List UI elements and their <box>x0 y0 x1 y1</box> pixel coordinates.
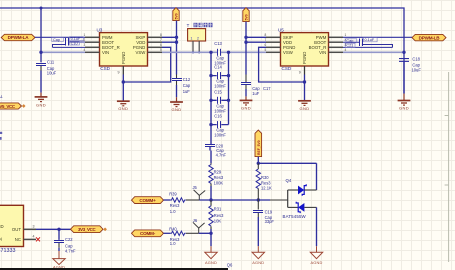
svg-text:GND: GND <box>299 106 309 111</box>
svg-text:4: 4 <box>345 48 347 52</box>
svg-text:BAT5455W: BAT5455W <box>283 214 307 219</box>
svg-text:C12: C12 <box>183 77 191 82</box>
svg-text:C14: C14 <box>214 65 222 70</box>
capacitor C10 assembly (bootstrap) <box>52 37 85 48</box>
wire PWM row U5 to DPWM-LB <box>343 36 412 38</box>
svg-text:100K: 100K <box>214 180 224 185</box>
capacitor C21 assembly (bootstrap) <box>343 38 393 48</box>
svg-text:4: 4 <box>33 234 35 238</box>
U3 pin stubs left <box>85 37 100 52</box>
node Q6 label <box>227 262 233 267</box>
svg-text:NC: NC <box>15 237 21 242</box>
IC U3 power block CSD <box>97 27 148 71</box>
svg-text:100nF: 100nF <box>214 108 226 113</box>
svg-text:J5: J5 <box>193 185 198 190</box>
svg-text:C19: C19 <box>265 209 273 214</box>
svg-text:3V3_VCC: 3V3_VCC <box>78 227 97 232</box>
svg-text:VIN: VIN <box>102 50 109 55</box>
capacitor C19 <box>253 200 274 246</box>
svg-text:5V0: 5V0 <box>245 14 249 20</box>
svg-text:10uF: 10uF <box>47 71 57 76</box>
svg-text:C10: C10 <box>71 42 78 46</box>
svg-text:Q6: Q6 <box>227 262 233 267</box>
ground AGND under C19 <box>252 246 264 265</box>
svg-text:DPWM-LA: DPWM-LA <box>8 35 30 40</box>
capacitor C20 <box>205 143 227 163</box>
node: VIN row to U3 (light wire) <box>39 51 85 54</box>
resistor R39 <box>164 191 200 214</box>
wire: left VIN branch vertical x41 <box>40 7 43 63</box>
capacitor C18 <box>399 57 421 94</box>
port DPWM-LA <box>1 34 35 40</box>
svg-text:10uF: 10uF <box>412 68 422 73</box>
svg-text:0.1uF: 0.1uF <box>365 38 375 42</box>
svg-text:10K: 10K <box>214 219 222 224</box>
svg-text:R29: R29 <box>214 170 222 175</box>
svg-text:COMM+: COMM+ <box>139 198 156 203</box>
svg-text:2: 2 <box>84 38 86 42</box>
svg-text:GND: GND <box>118 106 128 111</box>
wire: bottom toolbar bar <box>0 268 228 270</box>
capacitor C14 <box>211 65 229 89</box>
wire PGND route U5 <box>259 47 307 83</box>
svg-text:J6: J6 <box>193 218 198 223</box>
svg-text:8: 8 <box>160 33 162 37</box>
svg-text:GND: GND <box>36 102 46 107</box>
svg-text:T: T <box>187 23 190 28</box>
svg-text:CSD: CSD <box>282 66 292 71</box>
port COMM+ <box>132 197 164 204</box>
wire PGND route U3 <box>122 47 171 83</box>
node VIN row U5 right (light wire) <box>343 51 406 54</box>
port DPWM-LB <box>412 34 446 40</box>
IC U5 power block CSD <box>278 27 329 71</box>
svg-text:3: 3 <box>84 43 86 47</box>
node left edge text fragments <box>0 132 2 140</box>
svg-text:DPWM-LB: DPWM-LB <box>419 35 441 40</box>
capacitor C13 <box>214 41 226 65</box>
wire: cap ladder right rail <box>227 51 230 125</box>
svg-text:4.7nF: 4.7nF <box>65 248 76 253</box>
wire PWM row U3 <box>35 36 85 38</box>
capacitor C16 <box>211 114 229 138</box>
capacitor C12 <box>172 75 191 98</box>
svg-text:C17: C17 <box>263 86 271 91</box>
no-connect X on NC pin <box>36 237 40 241</box>
svg-text:C15: C15 <box>214 89 222 94</box>
svg-text:GND: GND <box>241 106 251 111</box>
svg-text:Cap: Cap <box>412 62 420 67</box>
svg-text:C13: C13 <box>214 41 222 46</box>
svg-text:VSW: VSW <box>283 50 294 55</box>
svg-text:33pF: 33pF <box>265 219 275 224</box>
port COMM- <box>132 230 164 237</box>
svg-text:U5: U5 <box>278 27 284 32</box>
wire VSW row (light) <box>162 51 266 53</box>
ground GND under C18 <box>398 94 411 106</box>
svg-text:5V5_VCC: 5V5_VCC <box>0 104 16 109</box>
svg-text:TPS71333: TPS71333 <box>0 248 15 254</box>
wire REF node <box>257 157 317 190</box>
svg-text:Res3: Res3 <box>170 203 180 208</box>
svg-text:12.1K: 12.1K <box>261 186 272 191</box>
svg-text:6: 6 <box>265 43 267 47</box>
wire SKIP/VDD tie U3 right <box>162 21 178 75</box>
svg-text:R39: R39 <box>169 191 177 196</box>
svg-text:GND: GND <box>0 224 4 229</box>
svg-text:C11: C11 <box>47 60 55 65</box>
ground GND under U5 <box>298 82 311 105</box>
U5 pin stubs left <box>266 37 281 52</box>
svg-text:7: 7 <box>160 38 162 42</box>
svg-text:6: 6 <box>160 43 162 47</box>
U3 bottom pin 9 <box>118 66 124 82</box>
svg-text:C21: C21 <box>346 44 353 48</box>
resistor R31 <box>209 200 224 233</box>
node A1 partial text <box>0 94 4 99</box>
wire COMM+ ext to diode node <box>270 199 288 201</box>
svg-text:9: 9 <box>118 70 120 74</box>
svg-text:4.7nF: 4.7nF <box>216 153 227 158</box>
svg-text:100nF: 100nF <box>214 133 226 138</box>
svg-text:PGND: PGND <box>121 52 126 64</box>
U3 pin stubs right <box>148 37 163 52</box>
svg-text:1uF: 1uF <box>252 91 260 96</box>
wire: cap ladder left rail <box>209 51 212 144</box>
svg-text:9: 9 <box>299 70 301 74</box>
test point J6 <box>193 218 205 233</box>
svg-text:R30: R30 <box>261 175 269 180</box>
port 3V3_VCC <box>71 226 107 233</box>
port 5V5_VCC (cut at left edge) <box>0 103 26 109</box>
diode Q4 dual schottky BAT5455W <box>283 178 317 219</box>
wire SKIP/VDD tie U5 left <box>244 22 266 75</box>
svg-text:5: 5 <box>265 48 267 52</box>
svg-text:1: 1 <box>191 37 193 41</box>
svg-text:AGND: AGND <box>205 260 217 265</box>
svg-text:4: 4 <box>84 48 86 52</box>
svg-text:0.1uF: 0.1uF <box>71 37 81 41</box>
svg-text:Cap: Cap <box>346 39 353 43</box>
ground GND under U3 <box>117 82 130 106</box>
svg-text:COMM-: COMM- <box>140 231 156 236</box>
ground GND under C17 <box>240 96 253 105</box>
connector T test header <box>187 23 213 54</box>
svg-text:2: 2 <box>197 37 199 41</box>
svg-text:Res3: Res3 <box>214 213 224 218</box>
svg-text:OUT: OUT <box>12 227 21 232</box>
svg-text:C16: C16 <box>214 114 222 119</box>
U5 bottom pin 9 <box>299 66 305 82</box>
svg-text:1: 1 <box>345 33 347 37</box>
svg-text:5: 5 <box>160 48 162 52</box>
svg-text:1uF: 1uF <box>183 89 191 94</box>
svg-text:CSD: CSD <box>100 66 110 71</box>
port 5V0 (right small vertical port) <box>243 8 249 22</box>
svg-text:AGND: AGND <box>252 260 264 265</box>
wire: sheet edge right <box>445 72 449 262</box>
svg-text:C22: C22 <box>65 237 73 242</box>
svg-text:7: 7 <box>265 38 267 42</box>
wire: top VIN rail <box>0 8 404 94</box>
svg-text:Q4: Q4 <box>286 178 292 183</box>
svg-text:U3: U3 <box>97 27 103 32</box>
svg-text:5V0: 5V0 <box>175 13 179 19</box>
svg-text:EN: EN <box>0 236 2 241</box>
svg-text:Res3: Res3 <box>214 175 224 180</box>
resistor R40 <box>164 227 199 247</box>
svg-text:3: 3 <box>33 224 35 228</box>
wire OUT to 3V3_VCC <box>36 228 71 231</box>
svg-text:1.0: 1.0 <box>170 241 176 246</box>
svg-text:Cap: Cap <box>183 83 191 88</box>
svg-text:R31: R31 <box>214 207 222 212</box>
svg-text:100nF: 100nF <box>214 84 226 89</box>
ground GND under C11 <box>35 93 48 102</box>
test point J5 <box>193 185 206 200</box>
svg-text:R40: R40 <box>169 227 177 232</box>
port REF_5V0 (vertical) <box>255 130 262 157</box>
ground AGND under diode <box>310 207 322 265</box>
svg-text:1: 1 <box>84 33 86 37</box>
svg-text:C18: C18 <box>412 57 420 62</box>
U5 pin stubs right <box>329 37 344 52</box>
capacitor C17 <box>241 75 271 97</box>
svg-text:PGND: PGND <box>302 52 307 64</box>
U6 pin stubs <box>24 224 37 239</box>
ground AGND under R31 rail <box>205 233 217 265</box>
capacitor C11 <box>36 60 57 93</box>
svg-text:VIN: VIN <box>319 50 326 55</box>
svg-text:VSW: VSW <box>136 50 147 55</box>
ground GND under C12 <box>170 97 183 106</box>
svg-text:GND: GND <box>171 107 181 112</box>
wire COMM+ row to R30 node <box>199 198 270 201</box>
IC U6 regulator TPS71333 <box>0 205 24 254</box>
wire COMM- to rail <box>199 232 213 235</box>
capacitor C15 <box>211 89 229 113</box>
svg-text:Cap: Cap <box>53 38 60 42</box>
ground AGND under C22 <box>53 251 65 269</box>
svg-text:GND: GND <box>399 106 409 111</box>
svg-text:1.0: 1.0 <box>170 209 176 214</box>
svg-text:AGND: AGND <box>310 260 322 265</box>
resistor R29 <box>209 163 224 200</box>
svg-text:8: 8 <box>265 33 267 37</box>
resistor R30 <box>256 163 272 200</box>
port 5V0 (left small vertical port) <box>173 8 179 21</box>
svg-text:REF_5V0: REF_5V0 <box>257 140 261 155</box>
capacitor C22 <box>54 229 76 253</box>
